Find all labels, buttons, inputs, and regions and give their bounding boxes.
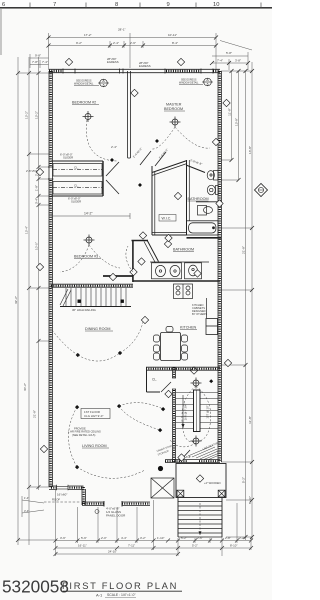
svg-text:3'-4": 3'-4" bbox=[24, 509, 29, 513]
diamond tags bath2 bbox=[138, 258, 145, 265]
W.I.C. label box bbox=[159, 215, 176, 222]
top wall window jambs bbox=[63, 69, 213, 74]
diamond tag hall front bbox=[178, 454, 185, 461]
front wall jog bbox=[82, 486, 85, 505]
living sconce dots bbox=[75, 405, 79, 409]
closet slider 2 bbox=[53, 182, 102, 195]
svg-text:BEDROOM #3: BEDROOM #3 bbox=[74, 255, 98, 259]
svg-text:2'-8"x6'-8": 2'-8"x6'-8" bbox=[190, 158, 203, 166]
diamond tag bath right wall bbox=[216, 200, 223, 207]
stair direction arrow bbox=[182, 395, 184, 428]
svg-text:8: 8 bbox=[115, 2, 118, 8]
svg-text:2'-4": 2'-4" bbox=[113, 41, 119, 45]
left small dim lines bbox=[30, 57, 49, 59]
hall south wall bbox=[103, 275, 133, 277]
svg-text:BEDROOM #2: BEDROOM #2 bbox=[72, 101, 96, 105]
bottom dim slashes row2 bbox=[54, 546, 254, 550]
svg-text:6'-8": 6'-8" bbox=[186, 455, 191, 459]
diamond tag partition bbox=[131, 89, 138, 96]
svg-text:16R @ 7 3/4": 16R @ 7 3/4" bbox=[184, 404, 188, 421]
left exterior wall bbox=[49, 71, 53, 487]
closet slider 1 bbox=[53, 164, 102, 177]
svg-text:3'-8": 3'-8" bbox=[235, 58, 241, 62]
svg-text:4'-4": 4'-4" bbox=[121, 536, 127, 540]
dining wiring arc bbox=[78, 353, 120, 361]
under stair closet wall bbox=[179, 450, 190, 462]
dim line 9'-2" row bbox=[49, 45, 217, 47]
dark blob artifact bbox=[158, 466, 163, 471]
left wall window bbox=[48, 166, 54, 168]
vanity double sinks bbox=[152, 263, 182, 279]
svg-text:13'-8": 13'-8" bbox=[248, 146, 252, 154]
second vertical dim line bbox=[28, 57, 30, 545]
basement stair posts bbox=[78, 300, 81, 303]
stair lower fan symbol bbox=[191, 436, 202, 447]
svg-text:A-1: A-1 bbox=[96, 593, 103, 598]
hall door leaf 1 bbox=[106, 162, 119, 176]
svg-text:13'-8": 13'-8" bbox=[235, 118, 239, 126]
bottom dim slashes row1 bbox=[54, 539, 254, 543]
right small dim lines bbox=[212, 55, 248, 57]
svg-text:LIVING ROOM: LIVING ROOM bbox=[82, 444, 107, 448]
svg-text:21'-8": 21'-8" bbox=[242, 246, 246, 254]
porch roof dashed line bbox=[44, 501, 80, 503]
svg-text:28'-1": 28'-1" bbox=[118, 28, 126, 32]
svg-text:CLG HGT 9'-0": CLG HGT 9'-0" bbox=[84, 414, 103, 418]
bottom dim texts row1 bbox=[60, 536, 245, 540]
stairwell left wall bbox=[173, 367, 176, 462]
backsplash line bbox=[150, 261, 209, 263]
outer vertical dim line bbox=[17, 57, 19, 545]
partition BR2 | Master bbox=[128, 71, 131, 158]
svg-text:CL.: CL. bbox=[152, 378, 157, 382]
master door leaf 2 bbox=[155, 152, 166, 166]
hall dashed dim line bbox=[52, 215, 130, 217]
master arcs bbox=[152, 127, 175, 149]
extension line from top-left corner bbox=[48, 33, 50, 70]
hall door leaf 2 bbox=[106, 180, 119, 194]
step direction dashed bbox=[199, 503, 201, 535]
svg-text:BATHROOM: BATHROOM bbox=[188, 197, 209, 201]
svg-text:MASTER: MASTER bbox=[166, 103, 182, 107]
right outer dim line bbox=[251, 62, 253, 540]
svg-text:8'-4": 8'-4" bbox=[172, 41, 178, 45]
bottom dim line 3 bbox=[56, 553, 179, 555]
small diamond tag right mid bbox=[224, 359, 231, 366]
svg-text:3'-4": 3'-4" bbox=[35, 198, 39, 204]
svg-text:10: 10 bbox=[213, 2, 219, 8]
toilet master bath bbox=[207, 171, 218, 181]
svg-text:2'-4"x6'-8": 2'-4"x6'-8" bbox=[132, 147, 143, 159]
angled wall to bath2 bbox=[147, 240, 159, 262]
svg-text:30'-2": 30'-2" bbox=[23, 383, 27, 391]
svg-text:BY OTHERS: BY OTHERS bbox=[192, 312, 207, 316]
porch diamond tag bbox=[196, 475, 203, 482]
svg-text:14'-2": 14'-2" bbox=[84, 212, 93, 216]
svg-text:5'-8": 5'-8" bbox=[226, 51, 232, 55]
svg-text:13'-2": 13'-2" bbox=[25, 111, 29, 119]
svg-text:5'-9": 5'-9" bbox=[81, 536, 87, 540]
stairwell wall diamond bbox=[165, 390, 172, 397]
kitchen counter line bbox=[206, 298, 208, 318]
basement stair treads bbox=[66, 288, 126, 306]
small diamond tag right upper bbox=[223, 99, 230, 106]
closet end wall bbox=[102, 161, 104, 196]
front door hardware circle bbox=[95, 510, 99, 514]
egress detail callout left bbox=[98, 79, 109, 88]
diamond tag left wall 2 bbox=[36, 263, 43, 270]
svg-text:9: 9 bbox=[167, 2, 170, 8]
svg-text:17'-2": 17'-2" bbox=[84, 33, 92, 37]
svg-text:WINDOW DETAIL: WINDOW DETAIL bbox=[74, 83, 94, 86]
bathtub bbox=[187, 221, 219, 235]
svg-text:10'-0": 10'-0" bbox=[35, 242, 39, 250]
svg-text:1'-8": 1'-8" bbox=[35, 185, 39, 191]
svg-text:21'-8": 21'-8" bbox=[33, 410, 37, 418]
side stoop X rect bbox=[151, 478, 174, 498]
svg-text:1'-4": 1'-4" bbox=[24, 496, 29, 500]
bottom ext verticals bbox=[55, 490, 57, 556]
ext ticks row2 bbox=[109, 41, 111, 48]
bedroom2 fan bbox=[83, 111, 94, 122]
svg-text:7'-8": 7'-8" bbox=[32, 60, 38, 64]
svg-text:1'-10": 1'-10" bbox=[157, 536, 164, 540]
svg-text:2'-8": 2'-8" bbox=[225, 536, 231, 540]
ruler strip background bbox=[0, 0, 272, 8]
extension line top-right corner bbox=[215, 33, 217, 70]
svg-text:CL.: CL. bbox=[74, 184, 79, 188]
fridge bbox=[206, 319, 218, 335]
bedroom2 arc bbox=[86, 120, 117, 161]
diamond tag right wall window bbox=[212, 138, 219, 145]
egress detail callout right bbox=[202, 78, 213, 87]
svg-text:3'-2": 3'-2" bbox=[140, 536, 146, 540]
W.I.C. left wall bbox=[151, 166, 153, 235]
svg-text:2'-0": 2'-0" bbox=[101, 536, 107, 540]
dim line 17'-2" bbox=[49, 37, 217, 39]
svg-text:SLIDER: SLIDER bbox=[71, 200, 81, 204]
stair railing line bbox=[60, 306, 131, 308]
bottom-left leader dims bbox=[22, 496, 44, 517]
right dim rotated texts bbox=[228, 108, 253, 504]
bedroom3 diamond bbox=[109, 273, 116, 280]
svg-text:CL.: CL. bbox=[74, 166, 79, 170]
extension line mid top bbox=[129, 33, 131, 68]
svg-text:8'-10": 8'-10" bbox=[230, 544, 237, 548]
stair hall front wall bbox=[165, 460, 220, 463]
bath divider wall bbox=[196, 201, 221, 203]
bottom dim line 1 bbox=[56, 540, 252, 542]
stair wiring arcs bbox=[182, 386, 196, 442]
W.I.C. right wall bbox=[186, 160, 188, 235]
left dim rotated texts bbox=[14, 111, 39, 418]
svg-text:9'-8": 9'-8" bbox=[35, 54, 41, 58]
porch steps bbox=[178, 502, 222, 538]
svg-text:SLIDER: SLIDER bbox=[63, 156, 73, 160]
top exterior wall bbox=[49, 69, 220, 72]
svg-text:11'-8": 11'-8" bbox=[248, 416, 252, 424]
svg-text:DINING ROOM: DINING ROOM bbox=[85, 327, 110, 331]
master door leaf bbox=[140, 151, 151, 165]
hall black dot bbox=[110, 158, 114, 162]
svg-text:5'-2": 5'-2" bbox=[242, 477, 246, 483]
porch step rails bbox=[177, 498, 179, 537]
svg-text:BATHROOM: BATHROOM bbox=[173, 248, 194, 252]
svg-text:7'-4": 7'-4" bbox=[217, 58, 223, 62]
porch outline bbox=[176, 464, 226, 498]
bottom dim texts row2 bbox=[78, 544, 237, 548]
big diamond tag right bbox=[254, 183, 267, 196]
closet bottom wall bbox=[51, 195, 103, 197]
left dim slashes bbox=[16, 71, 41, 542]
window tag diamond left bbox=[65, 58, 72, 65]
hall door arc to bath2 bbox=[126, 246, 133, 272]
W.I.C. bottom wall bbox=[152, 234, 187, 236]
stair fan symbol bbox=[191, 378, 202, 389]
svg-text:36" HIGH RAILING: 36" HIGH RAILING bbox=[72, 308, 96, 312]
svg-text:7'-11": 7'-11" bbox=[128, 544, 135, 548]
dining sconce dots bbox=[76, 353, 80, 357]
right dim line 3 bbox=[245, 71, 247, 540]
right dim line 1 bbox=[231, 71, 233, 160]
svg-text:2'-4": 2'-4" bbox=[111, 145, 117, 149]
kitchen / stair hall wall bbox=[146, 367, 220, 370]
basement stair break diagonals bbox=[60, 289, 71, 306]
stair stringer bbox=[194, 390, 201, 432]
svg-text:8'-10": 8'-10" bbox=[248, 496, 252, 504]
svg-text:11'-8": 11'-8" bbox=[228, 108, 232, 116]
bottom dim line 2 bbox=[56, 547, 252, 549]
BR3 bottom wall bbox=[51, 284, 133, 287]
page left edge mark bbox=[0, 9, 2, 55]
black dot stair bbox=[209, 379, 213, 383]
wic black dot bbox=[138, 183, 142, 187]
stairwell wall door gap bbox=[172, 378, 177, 389]
svg-text:13'-2": 13'-2" bbox=[35, 111, 39, 119]
svg-text:2'-2": 2'-2" bbox=[239, 536, 245, 540]
chairs bbox=[154, 327, 188, 361]
svg-text:+4" WOODEN: +4" WOODEN bbox=[204, 481, 221, 485]
bottom-left front wall bbox=[49, 486, 84, 489]
master black dot bbox=[155, 139, 159, 143]
svg-text:7'-4": 7'-4" bbox=[42, 60, 48, 64]
under stair diagonals bbox=[188, 446, 218, 460]
ceiling height box bbox=[81, 409, 110, 419]
top dim slashes bbox=[47, 36, 251, 66]
svg-text:6: 6 bbox=[2, 2, 5, 8]
svg-text:32'-2": 32'-2" bbox=[14, 296, 18, 304]
hall closet bottom wall bbox=[147, 391, 161, 393]
title underline bbox=[63, 590, 182, 592]
window tag diamond right bbox=[177, 58, 184, 65]
svg-text:10'-11": 10'-11" bbox=[168, 33, 177, 37]
svg-text:FIRST FLOOR PLAN: FIRST FLOOR PLAN bbox=[62, 580, 178, 591]
master fan bbox=[170, 117, 181, 128]
front entry wall bbox=[82, 502, 150, 505]
bath angled entry wall bbox=[186, 165, 205, 173]
bath2 / kitchen wall bbox=[133, 280, 220, 282]
toilet bath2 bbox=[185, 263, 202, 279]
svg-text:24'-10": 24'-10" bbox=[108, 550, 117, 554]
front door jambs bbox=[103, 501, 105, 507]
svg-text:7: 7 bbox=[53, 2, 56, 8]
svg-text:9'-2": 9'-2" bbox=[76, 41, 82, 45]
right exterior wall bbox=[218, 71, 222, 462]
svg-text:5'-2": 5'-2" bbox=[181, 536, 187, 540]
inner vertical dim line bbox=[38, 57, 40, 490]
hall wall above bath2 bbox=[132, 240, 149, 242]
svg-text:2'-4"x6'-8": 2'-4"x6'-8" bbox=[158, 148, 169, 160]
svg-text:BEDROOM: BEDROOM bbox=[164, 107, 183, 111]
svg-text:5320058: 5320058 bbox=[2, 577, 69, 597]
hall closet door bbox=[161, 382, 171, 392]
svg-text:W.I.C.: W.I.C. bbox=[162, 217, 172, 221]
svg-text:3'-9": 3'-9" bbox=[60, 536, 66, 540]
horizontal extension lines bbox=[18, 72, 49, 74]
kitchen diamond tag bbox=[141, 316, 148, 323]
closet top wall bbox=[51, 160, 103, 162]
right dim slashes bbox=[230, 69, 255, 539]
svg-text:16'-11": 16'-11" bbox=[78, 544, 87, 548]
svg-text:(SEE DETAIL 3/A-5): (SEE DETAIL 3/A-5) bbox=[72, 433, 95, 437]
kitchen table bbox=[161, 333, 181, 361]
ruler half ticks bbox=[30, 3, 261, 8]
front wall window bbox=[57, 485, 69, 490]
svg-text:15T @ 10": 15T @ 10" bbox=[206, 405, 210, 418]
central vertical wall bbox=[132, 241, 134, 283]
porch posts bbox=[177, 490, 184, 497]
svg-text:PANEL DOOR: PANEL DOOR bbox=[106, 514, 126, 518]
washer dryer block bbox=[174, 284, 193, 299]
svg-text:EGRESS: EGRESS bbox=[107, 60, 119, 64]
svg-text:KITCHEN: KITCHEN bbox=[180, 326, 197, 330]
pedestal sink master bath bbox=[207, 185, 218, 195]
svg-text:2'-6": 2'-6" bbox=[197, 536, 203, 540]
diamond tag left wall 1 bbox=[36, 168, 43, 175]
svg-text:EGRESS: EGRESS bbox=[139, 64, 151, 68]
right dim line 2 bbox=[238, 71, 240, 180]
svg-text:13'-4": 13'-4" bbox=[25, 226, 29, 234]
svg-text:WINDOW DETAIL: WINDOW DETAIL bbox=[179, 82, 199, 85]
bedroom3 fan bbox=[84, 235, 95, 246]
diamond tag left wall 3 bbox=[40, 445, 47, 452]
right horizontal extension lines bbox=[221, 70, 252, 72]
hall closet left wall bbox=[146, 367, 148, 392]
shower / bidet fixture bbox=[198, 206, 213, 216]
svg-text:16"x60": 16"x60" bbox=[57, 493, 67, 497]
svg-text:2'-6": 2'-6" bbox=[130, 41, 136, 45]
bottom dim slashes row3 bbox=[54, 552, 181, 556]
ruler edge line bbox=[0, 7, 272, 9]
svg-text:SCALE : 1/4"=1'-0": SCALE : 1/4"=1'-0" bbox=[107, 593, 136, 597]
wall below master bath bbox=[187, 237, 222, 239]
svg-text:ROOF: ROOF bbox=[52, 498, 60, 502]
diagonal leader top right bbox=[220, 41, 252, 51]
W.I.C. angled top wall bbox=[152, 161, 187, 173]
bedroom3 arcs bbox=[60, 245, 89, 272]
svg-text:5'-2": 5'-2" bbox=[192, 544, 198, 548]
living wiring arcs bbox=[69, 407, 78, 467]
stair treads bbox=[176, 393, 218, 429]
